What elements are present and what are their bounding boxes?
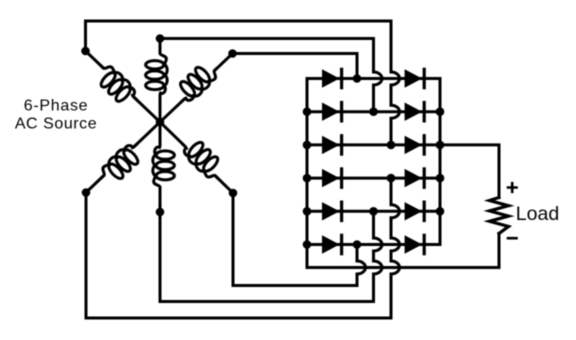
node: right bus junction row 3	[436, 141, 445, 150]
wire: L2 (upper-left phase) phase lead (terminal side)	[86, 51, 103, 68]
wire: top phase to row 2 node	[160, 37, 374, 40]
node: left bus junction row 2	[303, 107, 312, 116]
diode D4 (right)	[405, 103, 423, 121]
wire: negative output from load to left bus	[307, 234, 499, 268]
wire: upper-right phase to row 1 node	[233, 54, 358, 79]
node: right bus junction row 4	[436, 174, 445, 183]
wire: L4 (bottom phase) phase lead (star point side)	[159, 122, 162, 144]
node: terminal of L2 (upper-left phase)	[81, 47, 90, 56]
node: left bus junction row 4	[303, 174, 312, 183]
wire: L6 (lower-right phase) phase lead (star point side)	[160, 122, 184, 146]
resistor: Load	[490, 198, 509, 234]
diode D6 (right)	[405, 136, 423, 154]
inductor L5 (lower-left phase) winding	[97, 139, 147, 188]
node: terminal of L1 (top phase)	[156, 34, 165, 43]
svg-text:AC Source: AC Source	[15, 116, 97, 133]
node: right bus junction row 2	[436, 107, 445, 116]
wire: lower-right phase to row 6 node	[233, 193, 357, 286]
wire: rectifier row 1 rail	[307, 77, 440, 80]
diode D8 (right)	[405, 169, 423, 187]
wire: L5 (lower-left phase) phase lead (terminal side)	[86, 176, 103, 193]
wire: L3 (upper-right phase) phase lead (star point side)	[160, 100, 183, 122]
wire: positive output to load	[440, 145, 499, 198]
wire: lower-left phase to row 4 node	[86, 193, 391, 319]
wire: rectifier row 2 rail	[307, 110, 440, 113]
diode D11 (left)	[322, 235, 340, 253]
node: row 2 phase junction	[369, 107, 378, 116]
wire: rectifier row 6 rail	[307, 243, 440, 246]
inductor L3 (upper-right phase) winding	[172, 58, 222, 107]
wire: L3 (upper-right phase) phase lead (terminal side)	[215, 54, 232, 71]
node: terminal of L4 (bottom phase)	[156, 208, 165, 217]
wire: L2 (upper-left phase) phase lead (star point side)	[135, 98, 160, 122]
inductor L2 (upper-left phase) winding	[91, 61, 141, 110]
node: left bus junction row 5	[303, 207, 312, 216]
node: row 1 phase junction	[353, 74, 362, 83]
node: left bus junction row 3	[303, 141, 312, 150]
wire: left (negative) bus	[306, 79, 309, 268]
svg-text:Load: Load	[516, 203, 559, 225]
node: right bus junction row 5	[436, 207, 445, 216]
diode D12 (right)	[405, 235, 423, 253]
diode D1 (left)	[322, 69, 340, 87]
inductor L1 (top phase) winding	[146, 51, 168, 99]
label: minus	[508, 237, 517, 240]
wire: upper-left phase to row 3 node (top outer line)	[86, 21, 392, 51]
node: row 3 phase junction	[387, 141, 396, 150]
wire: L5 (lower-left phase) phase lead (star point side)	[135, 122, 160, 146]
diode D2 (right)	[405, 69, 423, 87]
diode D5 (left)	[322, 136, 340, 154]
wire: L1 (top phase) phase lead (star point side)	[159, 97, 162, 123]
diode D7 (left)	[322, 169, 340, 187]
wire: rectifier row 4 rail	[307, 177, 440, 180]
node: row 6 phase junction	[353, 240, 362, 249]
diode D9 (left)	[322, 202, 340, 220]
node: row 5 phase junction	[369, 207, 378, 216]
wire: L1 (top phase) phase lead (terminal side)	[159, 39, 162, 53]
node: terminal of L6 (lower-right phase)	[229, 189, 238, 198]
label: plus	[508, 183, 517, 192]
wire: rectifier row 5 rail	[307, 210, 440, 213]
inductor L4 (bottom phase) winding	[153, 142, 175, 190]
wire: bottom phase to row 5 node	[160, 212, 374, 302]
wire: L6 (lower-right phase) phase lead (terminal side)	[216, 176, 233, 193]
diode D10 (right)	[405, 202, 423, 220]
node: star center junction	[156, 118, 165, 127]
node: left bus junction row 6	[303, 240, 312, 249]
node: terminal of L3 (upper-right phase)	[228, 49, 237, 58]
diode D3 (left)	[322, 103, 340, 121]
node: row 4 phase junction	[387, 174, 396, 183]
inductor L6 (lower-right phase) winding	[178, 134, 227, 183]
wire: right (positive) bus	[439, 79, 442, 245]
svg-text:6-Phase: 6-Phase	[24, 98, 89, 115]
wire: L4 (bottom phase) phase lead (terminal side)	[159, 188, 162, 212]
node: terminal of L5 (lower-left phase)	[82, 188, 91, 197]
wire: rectifier row 3 rail	[307, 143, 440, 146]
